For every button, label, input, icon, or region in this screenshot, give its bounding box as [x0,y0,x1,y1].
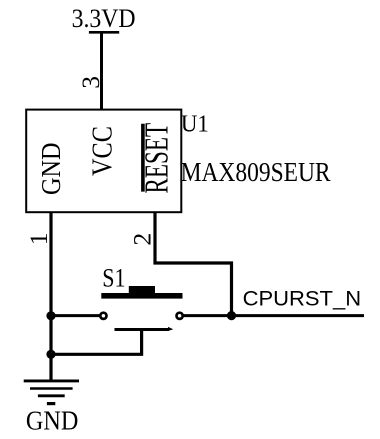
svg-text:S1: S1 [102,263,125,293]
svg-text:VCC: VCC [87,126,118,176]
svg-text:3.3VD: 3.3VD [72,3,136,33]
svg-text:U1: U1 [181,110,209,137]
svg-text:1: 1 [24,233,53,246]
svg-text:GND: GND [35,142,66,195]
svg-text:2: 2 [128,233,157,246]
svg-text:GND: GND [26,405,79,435]
svg-text:MAX809SEUR: MAX809SEUR [181,157,332,187]
svg-text:3: 3 [76,76,105,89]
svg-text:CPURST_N: CPURST_N [243,288,362,311]
